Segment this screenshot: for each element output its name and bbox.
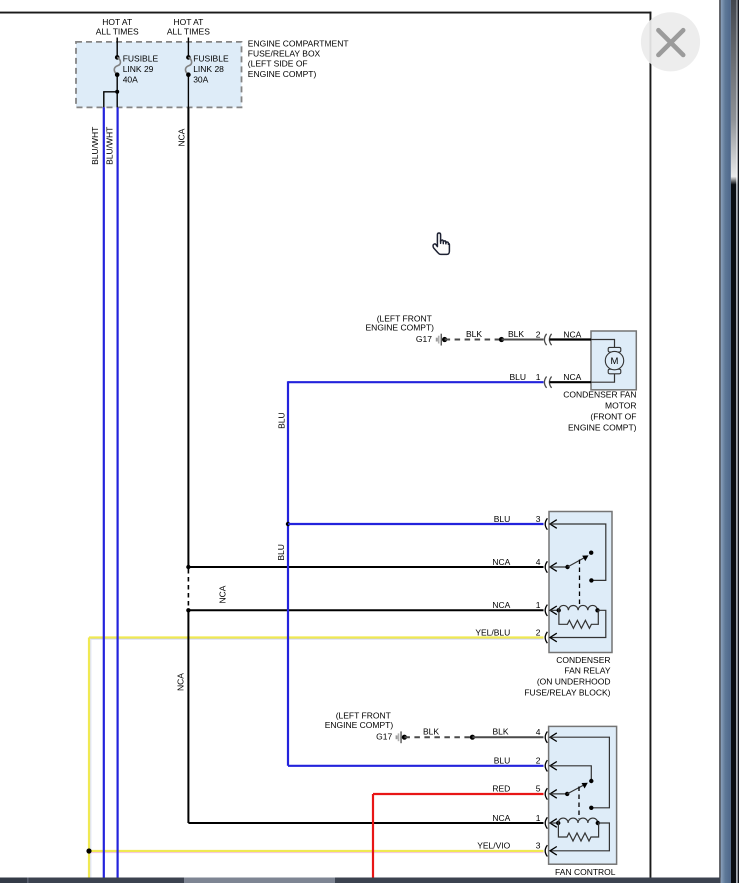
label pin 4 xyxy=(536,557,541,567)
wire BLK solid to motor pin 2 xyxy=(502,339,544,341)
svg-text:NCA: NCA xyxy=(492,813,510,823)
wire YEL/VIO horizontal to fan control pin 3 xyxy=(89,850,544,852)
relay K1 pin 2 connector xyxy=(545,632,557,643)
wire YEL/BLU stripe xyxy=(90,639,543,878)
motor M1 internal wiring xyxy=(591,340,615,383)
svg-text:ENGINE COMPT): ENGINE COMPT) xyxy=(366,323,435,333)
svg-text:BLU: BLU xyxy=(494,514,511,524)
svg-text:NCA: NCA xyxy=(492,557,510,567)
svg-text:NCA: NCA xyxy=(563,372,581,382)
wire NCA horizontal to condenser relay pin 1 xyxy=(188,609,543,611)
label HOT AT ALL TIMES (right) xyxy=(167,17,210,36)
diagram frame right border xyxy=(650,12,652,878)
label NCA (relay pin 1) xyxy=(492,600,510,610)
relay K1 pin 1 connector xyxy=(545,605,557,616)
svg-text:NCA: NCA xyxy=(492,600,510,610)
svg-text:ALL TIMES: ALL TIMES xyxy=(167,27,210,37)
svg-text:2: 2 xyxy=(536,627,541,637)
relay K1 coil-to-pin2 internal wire xyxy=(550,610,606,637)
svg-text:G17: G17 xyxy=(416,334,432,344)
fusible link 29 xyxy=(114,55,120,77)
svg-text:NCA: NCA xyxy=(563,329,581,339)
svg-text:FAN CONTROL: FAN CONTROL xyxy=(555,867,616,877)
vertical scrollbar gutter line xyxy=(719,0,720,883)
label NCA (lower vertical) xyxy=(176,673,186,691)
label (LEFT FRONT ENGINE COMPT) condenser xyxy=(366,313,435,332)
label NCA (top vertical) xyxy=(176,128,186,146)
label BLU (upper) xyxy=(276,412,286,429)
svg-text:BLU/WHT: BLU/WHT xyxy=(104,127,114,165)
relay K1 pin 4 connector xyxy=(545,561,557,572)
motor pin 2 connector xyxy=(544,334,591,345)
vertical scrollbar track gradient column xyxy=(731,0,736,883)
label G17 (condenser) xyxy=(416,334,432,344)
svg-text:4: 4 xyxy=(536,727,541,737)
label FUSIBLE LINK 29 40A xyxy=(123,53,159,84)
vertical scrollbar thumb column xyxy=(721,0,731,883)
label BLK (fan control dashed) xyxy=(423,727,439,737)
svg-text:CONDENSER FAN: CONDENSER FAN xyxy=(563,390,636,400)
label pin 1 (K2) xyxy=(536,813,541,823)
svg-text:ENGINE COMPT): ENGINE COMPT) xyxy=(248,69,317,79)
wire BLU/WHT vertical right xyxy=(116,107,118,877)
svg-text:1: 1 xyxy=(536,813,541,823)
wire RED vertical xyxy=(372,794,374,878)
label BLU (fan control pin 2) xyxy=(494,756,511,766)
svg-text:FAN RELAY: FAN RELAY xyxy=(564,666,610,676)
relay K1 switch blade xyxy=(550,551,593,570)
svg-text:ENGINE COMPT): ENGINE COMPT) xyxy=(568,423,637,433)
label BLU (relay pin 3) xyxy=(494,514,511,524)
wire RED horizontal to fan control pin 5 xyxy=(373,793,544,795)
label FUSIBLE LINK 28 30A xyxy=(193,53,229,84)
node junction YEL at fan control pin3 row xyxy=(86,848,91,853)
svg-text:1: 1 xyxy=(536,372,541,382)
wire NCA horizontal to fan control pin 1 xyxy=(188,822,543,824)
label NCA (relay pin 4) xyxy=(492,557,510,567)
label pin 2 xyxy=(536,627,541,637)
label BLU (lower) xyxy=(276,544,286,561)
wire BLK dashed from G17 (fan control) xyxy=(404,736,472,738)
svg-text:BLK: BLK xyxy=(492,727,508,737)
svg-text:NCA: NCA xyxy=(217,585,227,603)
relay K2 pin 2 connector xyxy=(545,760,557,771)
label BLK (fan control solid) xyxy=(492,727,508,737)
svg-text:FUSIBLE: FUSIBLE xyxy=(123,53,159,63)
label pin 1 xyxy=(536,600,541,610)
label ENGINE COMPARTMENT FUSE/RELAY BOX xyxy=(248,38,349,78)
mouse cursor xyxy=(433,233,449,254)
wire feed into fusible link 29 xyxy=(116,38,118,57)
relay K2 pin 5 connector xyxy=(545,788,557,799)
condenser fan relay box xyxy=(549,512,612,653)
motor pin 1 connector xyxy=(544,377,591,388)
label pin 5 (K2) xyxy=(536,784,541,794)
relay K2 actuation dashed link xyxy=(578,787,580,820)
junction node on link 29 output xyxy=(115,90,119,94)
svg-text:(LEFT SIDE OF: (LEFT SIDE OF xyxy=(248,59,308,69)
node splice on BLK wire (fan control) xyxy=(470,735,475,740)
wire from link 29 to junction xyxy=(116,75,118,108)
horizontal scrollbar left button segment xyxy=(0,878,27,883)
relay K2 pin 4 connector xyxy=(545,732,557,743)
engine compartment fuse/relay box xyxy=(76,42,242,108)
node junction BLU at condenser relay pin3 row xyxy=(286,522,290,526)
svg-text:NCA: NCA xyxy=(176,673,186,691)
condenser fan motor box xyxy=(591,331,636,390)
svg-text:CONDENSER: CONDENSER xyxy=(556,655,610,665)
relay K2 switch blade xyxy=(550,783,588,796)
svg-text:3: 3 xyxy=(536,514,541,524)
relay K1 actuation dashed link xyxy=(579,560,581,606)
label pin 4 (K2) xyxy=(536,727,541,737)
relay K2 resistor (parallel) xyxy=(558,823,598,841)
ground G17 (fan control) xyxy=(396,731,407,743)
wire BLK solid to fan control pin 4 xyxy=(472,736,543,738)
label CONDENSER FAN RELAY xyxy=(524,655,610,698)
horizontal scrollbar thumb xyxy=(184,878,335,883)
svg-text:40A: 40A xyxy=(123,75,138,85)
wire from link 28 to box edge xyxy=(187,75,189,108)
label BLU/WHT (left wire) xyxy=(90,127,100,165)
svg-text:BLK: BLK xyxy=(423,727,439,737)
wire BLU horizontal to motor pin 1 xyxy=(288,381,544,383)
wire BLU horizontal to fan control pin 2 xyxy=(288,765,544,767)
svg-text:ENGINE COMPT): ENGINE COMPT) xyxy=(325,720,394,730)
svg-text:2: 2 xyxy=(536,329,541,339)
wire feed into fusible link 28 xyxy=(187,38,189,57)
wire NCA vertical lower xyxy=(187,610,189,823)
relay K2 pin 1 connector xyxy=(545,817,557,828)
svg-text:RED: RED xyxy=(492,784,510,794)
label G17 (fan control) xyxy=(376,732,392,742)
svg-text:G17: G17 xyxy=(376,732,392,742)
svg-text:4: 4 xyxy=(536,557,541,567)
svg-text:30A: 30A xyxy=(193,75,208,85)
svg-text:1: 1 xyxy=(536,600,541,610)
svg-text:BLU/WHT: BLU/WHT xyxy=(90,127,100,165)
svg-text:3: 3 xyxy=(536,841,541,851)
vertical scrollbar highlight column xyxy=(736,0,738,883)
fusible link 28 xyxy=(185,55,191,77)
label YEL/VIO (fan control pin 3) xyxy=(477,841,510,851)
wire BLU vertical xyxy=(287,381,289,766)
relay K2 coil xyxy=(550,818,600,825)
svg-text:MOTOR: MOTOR xyxy=(605,401,636,411)
svg-text:FUSE/RELAY BLOCK): FUSE/RELAY BLOCK) xyxy=(524,688,610,698)
svg-text:BLU: BLU xyxy=(276,544,286,561)
label FAN CONTROL xyxy=(555,867,616,877)
svg-text:ALL TIMES: ALL TIMES xyxy=(96,27,139,37)
fan control relay box xyxy=(549,726,617,864)
wire NCA horizontal to condenser relay pin 4 xyxy=(188,566,543,568)
relay K1 pin3 internal wire to contact xyxy=(550,524,606,583)
label CONDENSER FAN MOTOR xyxy=(563,390,636,433)
label RED (fan control pin 5) xyxy=(492,784,510,794)
wire BLK dashed from G17 xyxy=(445,339,502,341)
label HOT AT ALL TIMES (left) xyxy=(96,17,139,36)
svg-text:BLU: BLU xyxy=(509,372,526,382)
wire YEL/BLU horizontal to condenser relay pin 2 xyxy=(89,636,544,638)
wire BLU horizontal to condenser relay pin 3 xyxy=(288,523,544,525)
wire dashed NCA jumper xyxy=(187,569,189,610)
relay K2 pin2 internal wire to upper contact xyxy=(550,766,594,783)
wire YEL/VIO stripe xyxy=(90,852,543,854)
label NCA (fan control pin 1) xyxy=(492,813,510,823)
label NCA (motor pin 1) xyxy=(563,372,581,382)
svg-text:2: 2 xyxy=(536,756,541,766)
relay K2 pin 3 connector xyxy=(545,845,557,856)
diagram frame top border xyxy=(0,12,651,14)
label pin 1 (motor) xyxy=(536,372,541,382)
svg-text:LINK 28: LINK 28 xyxy=(193,64,224,74)
label NCA (dashed jumper) xyxy=(217,585,227,603)
close button xyxy=(641,12,700,71)
label BLU/WHT (right wire) xyxy=(104,127,114,165)
label pin 2 (motor) xyxy=(536,329,541,339)
relay K1 coil xyxy=(550,605,600,612)
wire NCA vertical from fuse box xyxy=(187,107,189,567)
label YEL/BLU (relay pin 2) xyxy=(475,627,510,637)
label BLK (solid segment) xyxy=(508,329,524,339)
svg-text:BLU: BLU xyxy=(494,756,511,766)
label BLK (dashed segment) xyxy=(466,329,482,339)
svg-text:FUSE/RELAY BOX: FUSE/RELAY BOX xyxy=(248,49,321,59)
ground G17 (condenser fan motor) xyxy=(436,334,447,346)
label NCA (motor pin 2) xyxy=(563,329,581,339)
svg-text:ENGINE COMPARTMENT: ENGINE COMPARTMENT xyxy=(248,38,349,48)
label pin 3 (K2) xyxy=(536,841,541,851)
wire YEL vertical xyxy=(88,638,90,878)
svg-text:YEL/VIO: YEL/VIO xyxy=(477,841,510,851)
svg-text:BLK: BLK xyxy=(508,329,524,339)
svg-text:FUSIBLE: FUSIBLE xyxy=(193,53,229,63)
node junction at relay pin1 row xyxy=(186,608,190,612)
label pin 2 (K2) xyxy=(536,756,541,766)
svg-text:BLU: BLU xyxy=(276,412,286,429)
relay K1 pin 3 connector xyxy=(545,518,557,529)
svg-text:LINK 29: LINK 29 xyxy=(123,64,154,74)
node splice on BLK wire xyxy=(499,337,504,342)
svg-text:YEL/BLU: YEL/BLU xyxy=(475,627,510,637)
svg-text:(ON UNDERHOOD: (ON UNDERHOOD xyxy=(537,677,611,687)
label BLU (motor pin 1 wire) xyxy=(509,372,526,382)
svg-text:5: 5 xyxy=(536,784,541,794)
svg-text:(FRONT OF: (FRONT OF xyxy=(590,412,636,422)
wire BLU/WHT vertical left xyxy=(103,107,105,877)
motor M1 symbol xyxy=(605,347,623,373)
svg-text:(LEFT FRONT: (LEFT FRONT xyxy=(336,711,391,721)
svg-text:NCA: NCA xyxy=(176,128,186,146)
vertical scrollbar right edge column xyxy=(738,0,739,883)
relay K2 pin4 internal wire to contact xyxy=(550,737,609,810)
relay K1 resistor (parallel) xyxy=(559,610,598,628)
label (LEFT FRONT ENGINE COMPT) fan control xyxy=(325,711,394,731)
svg-text:BLK: BLK xyxy=(466,329,482,339)
label pin 3 xyxy=(536,514,541,524)
svg-text:M: M xyxy=(611,356,619,367)
horizontal scrollbar track xyxy=(0,878,720,883)
node junction at relay pin4 row xyxy=(186,565,190,569)
relay K2 coil-to-pin3 internal wire xyxy=(550,823,609,851)
wire branch to left inside fuse box xyxy=(104,92,117,108)
